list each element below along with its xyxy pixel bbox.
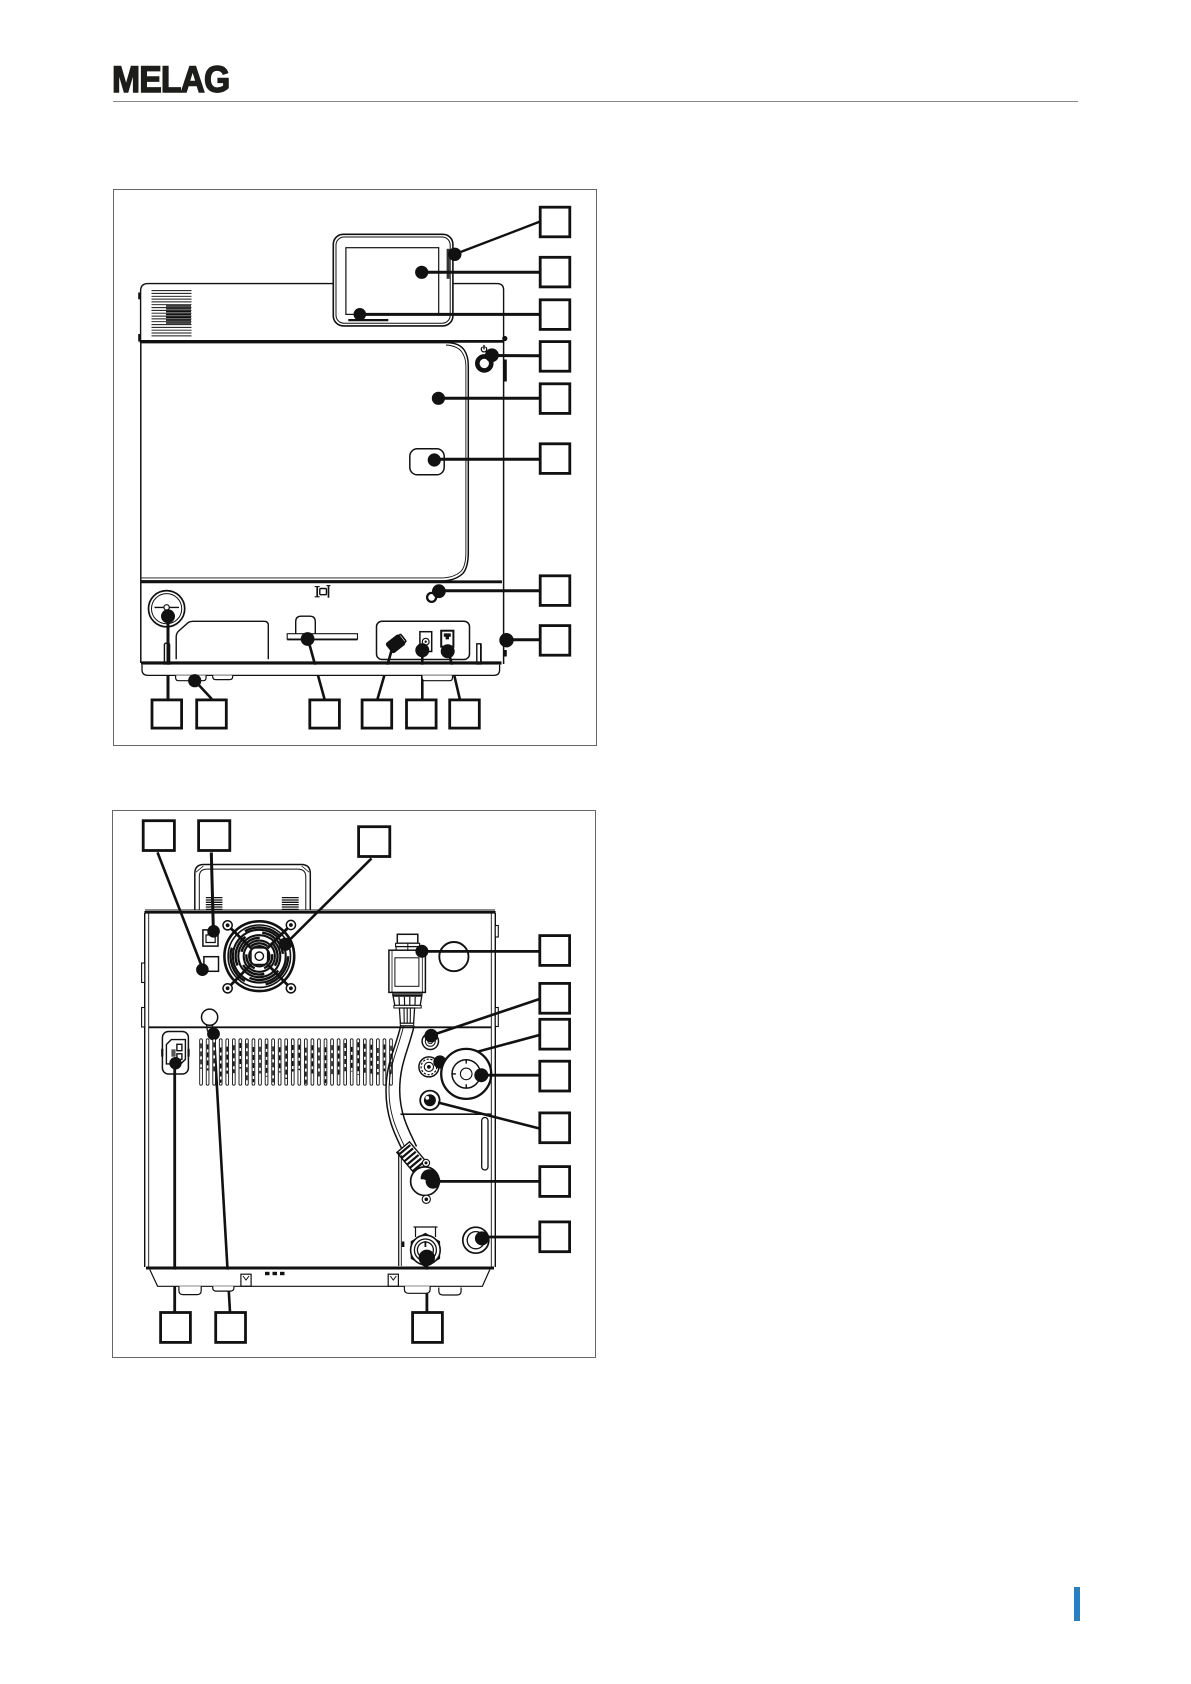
node dot filter [415, 945, 428, 958]
drain stub [414, 1227, 438, 1237]
node dot 5 (door) [432, 392, 445, 405]
callout box t3 [359, 827, 390, 857]
left slot bracket [164, 643, 169, 666]
device bottom edge [141, 661, 502, 664]
rear base [150, 1270, 490, 1287]
leader line to R6 [433, 1180, 540, 1183]
node dot 12 (side) [499, 633, 513, 647]
right side slot [504, 360, 507, 382]
node dot fan [279, 938, 292, 951]
leader line to box 4 [492, 354, 540, 357]
leader line to R5 [438, 1103, 540, 1129]
leader line to bottom box 5 [421, 650, 424, 699]
base studs [265, 1272, 285, 1275]
node dot service [196, 963, 209, 976]
rear bottom edge [146, 1267, 494, 1270]
node dot 10 (ACOUT) [415, 643, 429, 657]
foot right a [422, 675, 453, 680]
callout box 1 [540, 207, 570, 237]
door status ring [427, 593, 436, 602]
rear foot 3 [404, 1286, 430, 1293]
network port [203, 930, 218, 946]
callout box 8 [540, 626, 570, 656]
rear foot 1 [179, 1286, 201, 1294]
callout box rb1 [161, 1313, 191, 1343]
page marker bar [1074, 1587, 1080, 1621]
right edge tab b [495, 1008, 498, 1027]
hose [386, 1026, 417, 1153]
callout box r2 [540, 983, 570, 1013]
lower compartment line [401, 1113, 492, 1115]
base plinth [142, 665, 500, 676]
leader line to bottom box r3 [425, 1260, 428, 1312]
leader line to box 5 [438, 397, 539, 400]
fitting A (one-way drain) [422, 1033, 438, 1049]
callout box b6 [450, 700, 480, 728]
node dot fitting B [433, 1055, 446, 1068]
left hinge marks [138, 293, 140, 342]
callout box t2 [199, 821, 230, 851]
ACOUT socket [420, 632, 432, 652]
sterile filter assembly [389, 934, 426, 1025]
left edge tab b [142, 1008, 145, 1028]
pressure release fitting [463, 1227, 489, 1253]
node dot 7 (door gap) [432, 584, 446, 598]
left edge tab a [142, 963, 145, 983]
leader line from top box 1 [158, 852, 203, 967]
handle vent ridges left [206, 898, 223, 910]
figure frame: front view [113, 189, 597, 746]
node dot 1 (card slot) [448, 248, 461, 261]
callout box 2 [540, 257, 570, 287]
node dot 2 (display) [415, 266, 428, 279]
node dot 3 (USB on display) [354, 308, 367, 321]
spare circle [439, 942, 468, 971]
display side card slot [447, 249, 450, 279]
leader line to R7 [484, 1236, 540, 1239]
CF card slot cover [296, 616, 316, 634]
connector panel [377, 621, 470, 659]
callout box b5 [407, 700, 437, 728]
right edge tab a [495, 926, 498, 938]
callout box r7 [540, 1222, 570, 1252]
callout box r3 [540, 1019, 570, 1049]
callout box r5 [540, 1113, 570, 1143]
base clip right [388, 1274, 398, 1286]
lower compartment left edge [399, 1152, 405, 1266]
leader line from top box 3 [286, 858, 372, 944]
display [333, 234, 453, 326]
service flap [176, 621, 268, 659]
leader line from top box 2 [211, 852, 213, 928]
leader line to R1 [424, 950, 540, 953]
rear foot 4 [439, 1288, 461, 1296]
safety valve [441, 1049, 491, 1099]
foot left a [176, 675, 207, 680]
callout box r4 [540, 1061, 570, 1091]
USB connector [385, 633, 408, 655]
callout box 5 [540, 384, 570, 414]
figure frame: rear view [112, 810, 596, 1358]
MELAG logo [112, 58, 229, 101]
pressure gauge [149, 591, 185, 627]
lock lever icon [315, 586, 331, 598]
coupling screw a [422, 1159, 429, 1166]
rear foot 2 [213, 1286, 234, 1291]
leader line to bottom box 4 [378, 649, 393, 699]
leader line to bottom box r1 [173, 1066, 176, 1312]
right side lower tab [504, 650, 507, 657]
node dot fitting A [424, 1029, 438, 1043]
band corner dot [502, 336, 507, 341]
callout box r1 [540, 936, 570, 966]
node dot 11 (ethernet) [441, 644, 455, 658]
callout box rb2 [216, 1313, 246, 1343]
hose coupling (striped) [397, 1142, 428, 1174]
cooling vents [200, 1039, 393, 1085]
node dot 13 (base) [188, 674, 201, 687]
vent grille [152, 291, 192, 336]
leader line to R3 [444, 1035, 540, 1061]
leader line to box 3 [360, 313, 540, 316]
leader line to box 8 [507, 638, 540, 641]
callout box r6 [540, 1167, 570, 1197]
device right edge [503, 341, 505, 664]
door panel [142, 343, 469, 581]
callout box b1 [152, 700, 182, 728]
node dot keyhole [207, 1028, 220, 1041]
node dot elbow [426, 1174, 441, 1189]
emergency overflow elbow [411, 1167, 440, 1196]
door handle recess [410, 449, 444, 475]
leader line to R2 [434, 999, 540, 1035]
device top band [140, 284, 504, 342]
leader line to bottom box 3 [309, 641, 325, 699]
node dot 6 (door handle) [428, 453, 441, 466]
leader line to box 1 [456, 222, 540, 254]
leader line to R4 [485, 1074, 540, 1077]
power switch [477, 345, 491, 371]
leader line to bottom box 2 [197, 683, 212, 700]
node dot 4 (power switch) [485, 348, 499, 362]
device left edge [140, 341, 142, 663]
node dot 9 (card slot) [301, 632, 315, 646]
right slot bracket [482, 1118, 488, 1171]
node dot network [207, 925, 220, 938]
base clip left [241, 1274, 251, 1286]
callout box t1 [143, 821, 174, 851]
callout box rb3 [413, 1313, 443, 1343]
leader line to bottom box 6 [450, 655, 460, 699]
callout box 6 [540, 444, 570, 474]
fitting B (feed water) [419, 1057, 439, 1077]
rear body outline [144, 910, 495, 1267]
handle vent ridges right [282, 898, 299, 910]
mains socket [161, 1032, 190, 1075]
node dot 8 (gauge) [161, 609, 175, 623]
drain valve [411, 1234, 441, 1267]
ethernet port [441, 631, 453, 647]
fitting C (waste water) [420, 1091, 439, 1110]
leader line to box 2 [422, 271, 540, 274]
leader line to bottom box r2 [214, 1036, 230, 1312]
rear panel split line [149, 1026, 492, 1028]
callout box b4 [362, 700, 392, 728]
coupling screw b [422, 1195, 430, 1203]
callout box 3 [540, 300, 570, 330]
panel slot bracket [477, 644, 481, 664]
service interface [204, 957, 219, 972]
leader line to box 6 [434, 458, 539, 461]
callout box b2 [197, 700, 227, 728]
header rule [113, 101, 1078, 102]
node dot mains [169, 1057, 181, 1069]
leader line to bottom box 1 [167, 616, 170, 699]
node dot drain [419, 1250, 435, 1266]
carry handle [195, 865, 310, 911]
keyhole hanger [202, 1009, 218, 1031]
fan guard [223, 920, 296, 993]
node dot pressure fitting [475, 1231, 489, 1245]
foot left b [213, 675, 233, 679]
callout box b3 [310, 700, 340, 728]
node dot valve [474, 1068, 488, 1082]
card slot bar [287, 634, 357, 640]
door bottom ledge [141, 580, 502, 583]
callout box 4 [540, 342, 570, 372]
callout box 7 [540, 576, 570, 606]
leader line to box 7 [439, 589, 540, 592]
